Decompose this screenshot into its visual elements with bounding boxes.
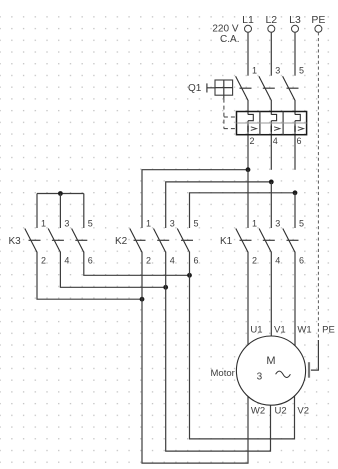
wire K3 bus drop — [59, 194, 61, 229]
svg-text:Q1: Q1 — [188, 83, 202, 94]
contactor K2 contact 1-2 — [130, 219, 151, 266]
contactor K1 label — [220, 236, 233, 247]
svg-text:1: 1 — [146, 219, 151, 229]
wire L3 node to K2 pole 5 — [190, 193, 296, 228]
wire L3 down to K1 — [294, 193, 296, 228]
breaker Q1 pole contact 1-2 — [236, 66, 257, 170]
svg-text:W1: W1 — [297, 325, 311, 336]
motor terminal label U1 — [250, 325, 262, 336]
breaker Q1 pole contact 5-6 — [283, 66, 304, 170]
svg-text:1: 1 — [252, 66, 257, 76]
svg-text:C.A.: C.A. — [220, 34, 239, 45]
svg-text:4: 4 — [64, 256, 69, 266]
svg-text:U1: U1 — [250, 325, 262, 336]
node K3/K2 junction — [163, 285, 168, 290]
terminal L3 — [289, 14, 301, 32]
node junction at x=271.3 — [269, 180, 274, 185]
motor label 3 — [257, 372, 263, 383]
node junction at x=295 — [293, 190, 298, 195]
wire L3 to Q1 — [294, 32, 296, 75]
node K3/K2 junction — [187, 273, 192, 278]
svg-text:1: 1 — [41, 219, 46, 229]
wire K3 output — [84, 252, 190, 276]
contactor K2 label — [115, 236, 128, 247]
svg-text:2: 2 — [252, 256, 257, 266]
wire L1 down to K1 — [247, 170, 249, 228]
wire K3 bus drop — [36, 194, 38, 229]
wire L2 to Q1 — [270, 32, 272, 75]
wire K3 output — [60, 252, 165, 288]
wire L1 to Q1 — [247, 32, 249, 75]
contactor K3 contact 3-4 — [48, 219, 69, 266]
wire K2 output to motor — [166, 252, 271, 452]
contactor K1 contact 5-6 — [283, 219, 304, 266]
motor terminal label U2 — [275, 406, 287, 417]
node K3 bus junction — [58, 191, 63, 196]
Q1 thermal-magnetic trip unit box — [237, 112, 307, 135]
motor terminal label W2 — [251, 406, 265, 417]
motor AC tilde symbol — [276, 371, 291, 377]
contactor K2 contact 3-4 — [154, 219, 175, 266]
svg-text:4: 4 — [273, 136, 278, 146]
svg-text:5: 5 — [194, 219, 199, 229]
wire L1 node to K2 pole 1 — [142, 170, 248, 228]
svg-text:3: 3 — [257, 372, 263, 383]
contactor K1 contact 1-2 — [236, 219, 257, 266]
svg-text:5: 5 — [299, 66, 304, 76]
wire K2 output to motor — [142, 252, 248, 464]
wire PE to motor frame — [311, 340, 319, 370]
svg-text:L2: L2 — [265, 14, 277, 26]
node K3/K2 junction — [140, 297, 145, 302]
svg-text:V2: V2 — [297, 406, 309, 417]
svg-text:3: 3 — [275, 219, 280, 229]
svg-text:PE: PE — [311, 14, 325, 26]
svg-text:W2: W2 — [251, 406, 265, 417]
motor terminal label W1 — [297, 325, 311, 336]
wire K1 output to motor — [270, 252, 272, 350]
circuit breaker Q1 operator — [188, 80, 233, 99]
svg-text:5: 5 — [88, 219, 93, 229]
svg-text:2: 2 — [250, 136, 255, 146]
wire K3 bus drop — [83, 194, 85, 229]
contactor K3 contact 1-2 — [25, 219, 46, 266]
motor terminal label V2 — [297, 406, 309, 417]
svg-text:K3: K3 — [9, 236, 22, 247]
label 220 V C.A. — [212, 24, 239, 46]
svg-text:U2: U2 — [275, 406, 287, 417]
wire L2 down to K1 — [270, 182, 272, 228]
svg-text:3: 3 — [64, 219, 69, 229]
contactor K3 contact 5-6 — [72, 219, 93, 266]
terminal L1 — [242, 14, 254, 32]
svg-text:4: 4 — [170, 256, 175, 266]
svg-text:K1: K1 — [220, 236, 233, 247]
motor terminal label PE — [322, 325, 335, 336]
K3 star bus wire — [37, 193, 84, 195]
breaker Q1 pole contact 3-4 — [259, 66, 280, 170]
wire K1 output to motor — [294, 252, 296, 350]
node junction at x=248 — [246, 167, 251, 172]
wire K2 output to motor — [190, 252, 295, 439]
svg-text:1: 1 — [252, 219, 257, 229]
PE motor frame plate — [308, 362, 310, 378]
wire PE (dashed) — [317, 32, 319, 341]
svg-text:6: 6 — [297, 136, 302, 146]
wire K3 output — [37, 252, 142, 300]
svg-text:L3: L3 — [289, 14, 301, 26]
svg-text:V1: V1 — [274, 325, 286, 336]
svg-text:Motor: Motor — [211, 368, 235, 379]
svg-text:2: 2 — [41, 256, 46, 266]
svg-text:3: 3 — [170, 219, 175, 229]
motor name label — [211, 368, 235, 379]
wire K1 output to motor — [247, 252, 249, 350]
Q1 mechanical linkage (dashed) — [224, 99, 237, 129]
terminal PE — [311, 14, 325, 32]
svg-text:3: 3 — [275, 66, 280, 76]
terminal L2 — [265, 14, 277, 32]
contactor K2 contact 5-6 — [177, 219, 198, 266]
svg-text:6: 6 — [88, 256, 93, 266]
svg-text:PE: PE — [322, 325, 335, 336]
motor label M — [266, 355, 275, 367]
contactor K3 label — [9, 236, 22, 247]
svg-text:L1: L1 — [242, 14, 254, 26]
motor terminal label V1 — [274, 325, 286, 336]
svg-text:M: M — [266, 355, 275, 367]
motor M circle — [236, 336, 305, 405]
svg-text:4: 4 — [275, 256, 280, 266]
contactor K1 contact 3-4 — [259, 219, 280, 266]
svg-text:5: 5 — [299, 219, 304, 229]
svg-text:2: 2 — [146, 256, 151, 266]
svg-text:220 V: 220 V — [212, 24, 238, 35]
wire L2 node to K2 pole 3 — [166, 182, 272, 228]
svg-text:6: 6 — [299, 256, 304, 266]
svg-text:K2: K2 — [115, 236, 128, 247]
svg-text:6: 6 — [194, 256, 199, 266]
